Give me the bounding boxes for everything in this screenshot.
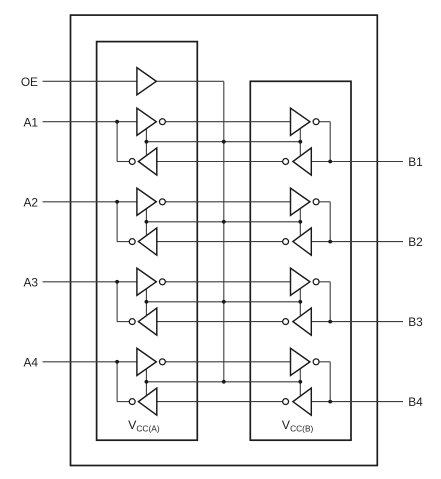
svg-text:B2: B2 — [408, 235, 423, 249]
svg-text:A1: A1 — [23, 115, 38, 129]
svg-text:A4: A4 — [23, 355, 38, 369]
svg-text:OE: OE — [21, 75, 38, 89]
svg-text:B4: B4 — [408, 395, 423, 409]
svg-text:B3: B3 — [408, 315, 423, 329]
svg-text:A3: A3 — [23, 275, 38, 289]
svg-text:B1: B1 — [408, 155, 423, 169]
svg-text:A2: A2 — [23, 195, 38, 209]
